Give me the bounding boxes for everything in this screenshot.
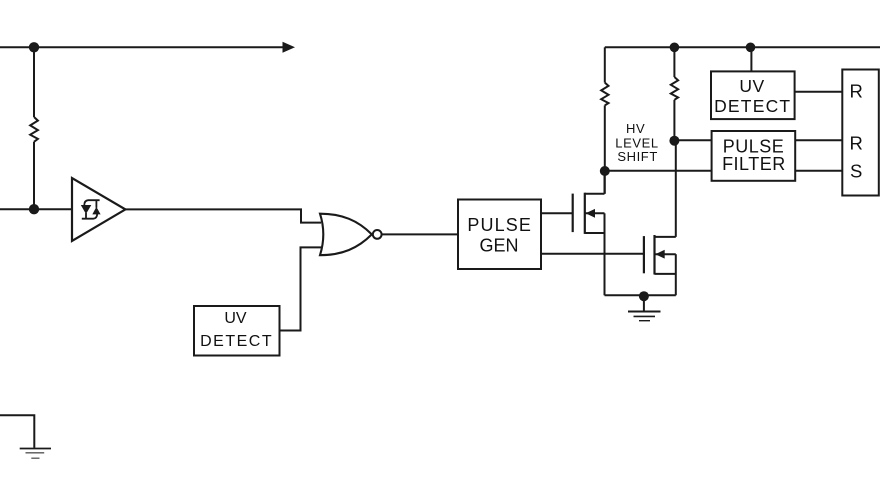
svg-text:R: R <box>850 81 863 102</box>
svg-text:SHIFT: SHIFT <box>617 149 658 164</box>
resistor R3 <box>671 77 678 100</box>
UV DETECT block (top right) <box>711 71 795 119</box>
svg-text:UV: UV <box>739 76 764 96</box>
node: junction dot at (674.4,47) <box>670 43 680 53</box>
wire: PULSE FILTER upper output to latch R <box>795 139 842 141</box>
wire: left HV vertical below R2 to junction <box>604 105 606 193</box>
wire: top HV rail <box>605 46 880 48</box>
label: HV LEVEL SHIFT <box>615 121 658 164</box>
node: junction dot at (674.4,141) <box>669 136 679 146</box>
ground (bottom left) <box>20 449 51 459</box>
node: junction dot at (604.8,171) <box>600 166 610 176</box>
wire: PULSE GEN top output to Q1 gate <box>541 212 573 214</box>
ground (under Q2) <box>628 296 661 321</box>
label: PULSE GEN <box>467 215 532 255</box>
resistor R2 <box>601 83 608 106</box>
wire: level-shift node to PULSE FILTER upper input <box>674 139 711 141</box>
wire: comparator output to NOR top input <box>125 209 321 222</box>
wire: bottom rail between Q1 and Q2 sources <box>605 294 676 296</box>
svg-text:FILTER: FILTER <box>722 154 786 174</box>
wire: Q1 drain up to HV node <box>604 171 606 194</box>
wire: UV DETECT output to latch R <box>795 91 843 93</box>
wire: top-left rail y=47 <box>0 46 284 48</box>
wire: Q2 source/body down to bottom rail <box>675 254 677 295</box>
node: junction dot at (34,47) <box>29 42 39 52</box>
svg-text:UV: UV <box>224 310 247 327</box>
wire: level-shift node to PULSE FILTER lower input <box>605 170 712 172</box>
node: junction dot at (750,47) <box>746 43 756 53</box>
label: UV DETECT (lower left) <box>200 310 273 350</box>
latch block U3 (R R S) <box>842 70 879 196</box>
svg-text:S: S <box>850 161 862 182</box>
wire: right HV vertical above resistor R3 <box>673 47 675 77</box>
svg-text:R: R <box>850 132 863 153</box>
node: junction dot at (34,209) <box>29 204 39 214</box>
wire: UV detect to NOR bottom input <box>280 247 322 330</box>
label: PULSE FILTER <box>722 136 786 173</box>
PULSE GEN block <box>458 200 541 270</box>
NOR gate U2 <box>320 214 372 256</box>
svg-text:DETECT: DETECT <box>714 96 791 116</box>
UV DETECT block (lower left) <box>194 306 280 356</box>
NOR output bubble <box>373 230 382 239</box>
wire: PULSE GEN bottom output to Q2 gate <box>541 253 644 255</box>
transistor Q2 (lower MOSFET) <box>644 235 676 275</box>
wire: vertical from R1 down to input node <box>33 142 35 209</box>
transistor Q1 (upper MOSFET) <box>573 193 605 234</box>
wire: input wire from left edge to comparator <box>0 208 72 210</box>
svg-text:GEN: GEN <box>479 236 518 256</box>
wire: left HV vertical above resistor R2 <box>604 47 606 82</box>
wire: right HV vertical below R3 to junction <box>673 100 675 141</box>
PULSE FILTER block <box>712 131 796 181</box>
resistor R1 <box>30 117 38 142</box>
wire: bottom-left wire to ground <box>0 415 34 448</box>
wire: Q1 source/body down to bottom rail <box>604 213 606 295</box>
wire: NOR output to PULSE GEN <box>382 233 458 235</box>
svg-text:HV: HV <box>626 121 645 136</box>
arrowhead on top-left rail <box>283 42 296 53</box>
label: UV DETECT (top right) <box>714 76 791 116</box>
zener clamp symbol inside U1 <box>81 200 101 219</box>
wire: PULSE FILTER lower output to latch S <box>795 170 842 172</box>
wire: vertical from top rail down to resistor R1 <box>33 47 35 117</box>
svg-text:PULSE: PULSE <box>467 215 532 235</box>
op-amp U1: input comparator triangle <box>72 178 125 241</box>
svg-text:DETECT: DETECT <box>200 333 273 350</box>
wire: Q2 drain up to HV node <box>675 141 677 237</box>
wire: rail down to UV DETECT (top right) <box>750 47 752 71</box>
node: junction dot at bottom rail <box>639 291 649 301</box>
